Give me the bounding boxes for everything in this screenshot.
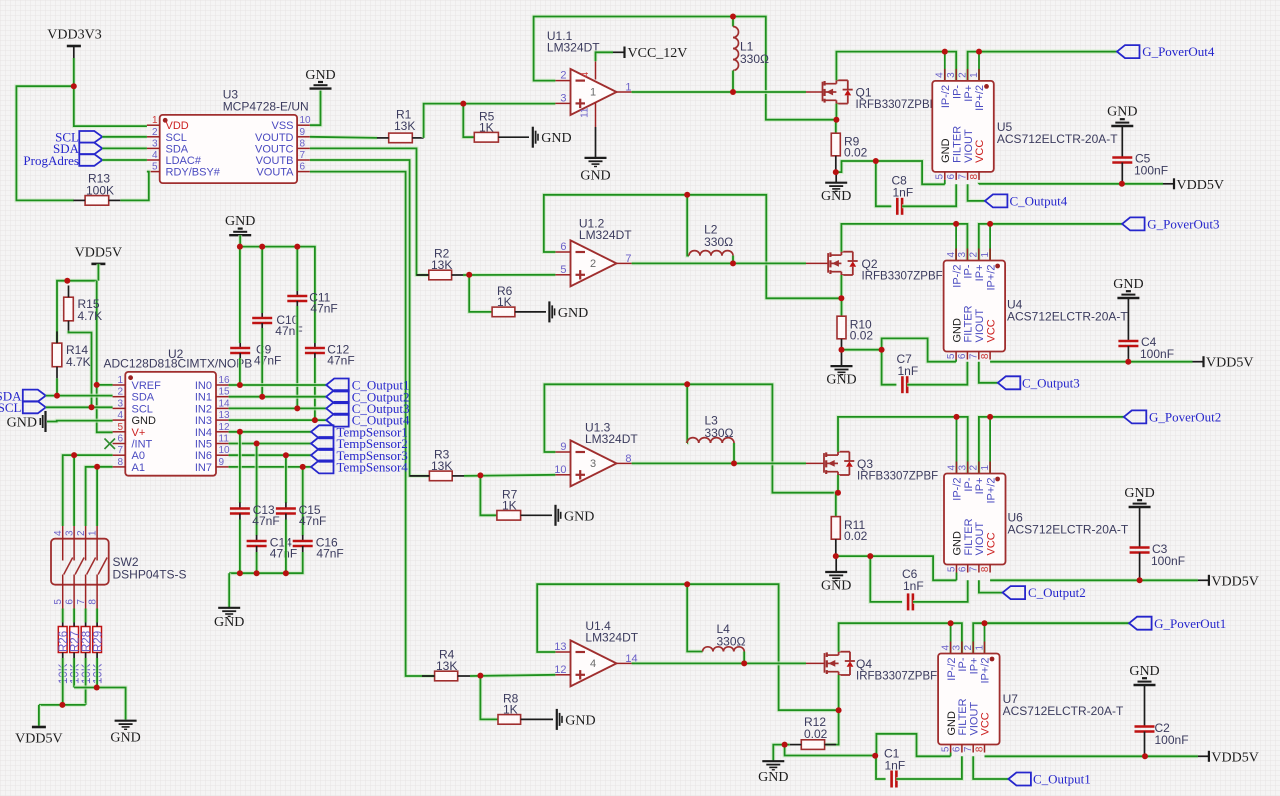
svg-text:VCC: VCC bbox=[980, 712, 992, 735]
svg-text:8: 8 bbox=[969, 173, 980, 179]
switch SW2 DSHP04TS-S body bbox=[51, 539, 187, 585]
wire ACS pin stubs top U6 bbox=[957, 417, 991, 474]
svg-text:5: 5 bbox=[117, 422, 123, 433]
svg-text:C_Output2: C_Output2 bbox=[1028, 585, 1086, 600]
SW2 pole 1 bbox=[53, 526, 72, 609]
ground above C3 bbox=[1124, 486, 1154, 507]
junction ACS pin1 bbox=[987, 414, 993, 420]
no-connect X at U2 /INT bbox=[105, 439, 116, 450]
svg-text:C_Output3: C_Output3 bbox=[1022, 375, 1080, 390]
junction A1/SW2 pin1 bbox=[94, 464, 100, 470]
capacitor C4 100nF bbox=[1118, 335, 1174, 362]
junction C1 branch bbox=[872, 753, 878, 759]
wire node to R8 bbox=[480, 676, 498, 720]
net flag SDA (U3) bbox=[53, 141, 102, 156]
resistor R26 10K bbox=[58, 609, 70, 685]
svg-text:2: 2 bbox=[957, 72, 968, 78]
IC U6 ACS712ELCTR-20A-T body bbox=[944, 465, 1129, 573]
wire C8 to FILTER pin bbox=[902, 184, 956, 206]
svg-text:C_Output1: C_Output1 bbox=[1033, 772, 1091, 787]
wire SCL flag to U2 pin3 bbox=[46, 405, 113, 409]
junction rail C11 bbox=[294, 244, 300, 250]
capacitor C15 47nF bbox=[276, 503, 326, 529]
wire U1.3 feedback bbox=[544, 384, 837, 492]
svg-text:VREF: VREF bbox=[132, 380, 162, 392]
wire gate lead Q3 bbox=[734, 461, 824, 465]
svg-text:IP+: IP+ bbox=[968, 658, 980, 675]
U3 pin 2 SCL bbox=[147, 127, 187, 144]
wire R13 to U3 RDY/BSY# bbox=[120, 172, 148, 201]
svg-text:GND: GND bbox=[951, 318, 963, 343]
U3 pin 10 VSS bbox=[271, 115, 311, 132]
resistor R2 13K bbox=[417, 247, 464, 280]
svg-text:6: 6 bbox=[300, 162, 306, 173]
svg-text:VSS: VSS bbox=[271, 120, 293, 132]
resistor R5 1K bbox=[474, 110, 529, 143]
svg-text:R28: R28 bbox=[81, 631, 93, 652]
wire U1.2 feedback bbox=[544, 195, 841, 298]
svg-text:LDAC#: LDAC# bbox=[166, 155, 202, 167]
svg-text:IP-/2: IP-/2 bbox=[951, 265, 963, 288]
svg-text:IN4: IN4 bbox=[195, 427, 212, 439]
svg-text:7: 7 bbox=[969, 353, 980, 359]
svg-text:1nF: 1nF bbox=[898, 364, 919, 378]
wire lower GND rail bbox=[229, 552, 303, 573]
svg-text:IP+: IP+ bbox=[963, 85, 975, 102]
U2 pin 10 IN6 bbox=[195, 445, 230, 462]
junction L2 output bbox=[730, 260, 736, 266]
junction Q3 source node bbox=[835, 490, 841, 496]
junction L4 top bbox=[684, 581, 690, 587]
junction IN0/C9 bbox=[237, 382, 243, 388]
ground below C13-C16 bbox=[214, 608, 244, 630]
wire R10 to ground bbox=[841, 350, 843, 366]
junction R11 bottom bbox=[833, 553, 839, 559]
svg-text:7: 7 bbox=[969, 566, 980, 572]
svg-text:RDY/BSY#: RDY/BSY# bbox=[166, 167, 221, 179]
svg-text:4.7K: 4.7K bbox=[66, 355, 91, 369]
svg-text:IRFB3307ZPBF: IRFB3307ZPBF bbox=[856, 99, 937, 111]
svg-text:Q4: Q4 bbox=[856, 657, 872, 671]
svg-text:GND: GND bbox=[946, 711, 958, 736]
wire SDA flag to U2 pin2 bbox=[46, 394, 113, 398]
svg-text:IN7: IN7 bbox=[195, 462, 212, 474]
net flag SDA (U2) bbox=[0, 388, 46, 403]
resistor R3 13K bbox=[410, 448, 464, 481]
resistor R28 10K bbox=[81, 609, 93, 685]
wire sense R11 to U6 GND pin bbox=[836, 556, 957, 580]
svg-text:13K: 13K bbox=[431, 258, 452, 272]
wire C10 to IN1 bbox=[260, 328, 264, 397]
svg-text:47nF: 47nF bbox=[254, 354, 281, 368]
svg-text:LM324DT: LM324DT bbox=[585, 631, 638, 645]
op-amp U1.4 LM324DT bbox=[554, 619, 639, 686]
wire C13 drop bbox=[238, 432, 242, 503]
svg-text:12: 12 bbox=[554, 664, 566, 676]
svg-text:VDD5V: VDD5V bbox=[1206, 356, 1253, 371]
svg-text:0.02: 0.02 bbox=[804, 727, 828, 741]
resistor R1 13K bbox=[377, 108, 424, 143]
svg-text:47nF: 47nF bbox=[310, 302, 337, 316]
svg-text:GND: GND bbox=[1107, 105, 1137, 120]
transistor Q3 IRFB3307ZPBF bbox=[824, 452, 938, 483]
U2 pin 4 GND bbox=[113, 410, 156, 427]
power flag VDD5V bar row3 bbox=[1209, 574, 1259, 589]
wire to G_PoverOut1 bbox=[985, 621, 1130, 625]
wire rail drop C10 bbox=[260, 247, 264, 313]
svg-text:SCL: SCL bbox=[166, 132, 187, 144]
wire VCC to VDD5V row4 bbox=[985, 754, 1198, 758]
svg-text:1: 1 bbox=[980, 465, 991, 471]
capacitor C1 1nF bbox=[876, 747, 905, 788]
U3 pin 9 VOUTD bbox=[255, 127, 310, 144]
svg-text:1: 1 bbox=[590, 87, 596, 99]
ground at U3 VSS bbox=[305, 68, 335, 89]
wire VDD5V stem bbox=[96, 264, 100, 281]
wire sense R10 to U4 GND pin bbox=[842, 338, 957, 361]
svg-text:IP+/2: IP+/2 bbox=[974, 85, 986, 111]
svg-text:ACS712ELCTR-20A-T: ACS712ELCTR-20A-T bbox=[1003, 704, 1124, 718]
svg-text:TempSensor4: TempSensor4 bbox=[337, 460, 409, 475]
svg-text:IN3: IN3 bbox=[195, 415, 212, 427]
svg-text:8: 8 bbox=[300, 138, 306, 149]
resistor R7 1K bbox=[497, 488, 552, 521]
wire C9 to IN0 bbox=[238, 358, 242, 385]
svg-text:VDD5V: VDD5V bbox=[1211, 574, 1258, 589]
junction rail C15 bbox=[283, 570, 289, 576]
junction A0/SW2 pin3 bbox=[71, 452, 77, 458]
wire VOUTA to R4 bbox=[310, 172, 435, 676]
wire U1.1 feedback bbox=[534, 17, 836, 120]
wire C16 drop bbox=[301, 467, 305, 536]
svg-text:14: 14 bbox=[219, 398, 231, 409]
svg-text:SCL: SCL bbox=[132, 403, 153, 415]
svg-text:10: 10 bbox=[554, 464, 566, 476]
wire VIOUT to C_Output2 bbox=[979, 580, 1003, 592]
wire C11 to IN2 bbox=[295, 306, 299, 408]
wire ACS IP- pins bbox=[945, 52, 956, 81]
svg-text:330Ω: 330Ω bbox=[704, 235, 733, 249]
wire ground to C5 bbox=[1121, 126, 1123, 157]
junction L3 output bbox=[731, 460, 737, 466]
U2 pin 5 V+ bbox=[113, 422, 146, 439]
svg-text:2: 2 bbox=[969, 252, 980, 258]
junction R12/GND node bbox=[782, 742, 788, 748]
svg-text:LM324DT: LM324DT bbox=[579, 228, 632, 242]
svg-text:IP+/2: IP+/2 bbox=[980, 658, 992, 684]
svg-text:R27: R27 bbox=[69, 631, 81, 652]
svg-text:7: 7 bbox=[117, 445, 123, 456]
wire pin4 to VCC_12V bbox=[596, 52, 614, 61]
svg-text:GND: GND bbox=[565, 713, 595, 728]
wire R4 to U1.4 input bbox=[470, 675, 555, 676]
svg-text:GND: GND bbox=[821, 189, 851, 204]
svg-text:LM324DT: LM324DT bbox=[547, 41, 600, 55]
capacitor C8 1nF bbox=[876, 161, 913, 215]
junction VDD5V/C3 bbox=[1137, 577, 1143, 583]
resistor R15 4.7K bbox=[64, 286, 102, 333]
wire ACS pin stubs top U7 bbox=[951, 623, 985, 653]
svg-text:VDD5V: VDD5V bbox=[15, 732, 62, 747]
svg-text:IP-/2: IP-/2 bbox=[946, 658, 958, 681]
wire U1.1 output to gate bbox=[632, 90, 733, 94]
svg-text:GND: GND bbox=[580, 169, 610, 184]
svg-text:7: 7 bbox=[300, 150, 306, 161]
wire Q1 drain to G_PoverOut bbox=[836, 52, 944, 81]
svg-text:2: 2 bbox=[560, 70, 566, 82]
wire ground to C2 bbox=[1144, 685, 1146, 726]
wire R3 to U1.3 input bbox=[464, 475, 555, 476]
svg-text:9: 9 bbox=[300, 127, 306, 138]
junction SCL/R15 bbox=[89, 404, 95, 410]
svg-text:FILTER: FILTER bbox=[963, 305, 975, 342]
wire A0 branch SW2 pin3 bbox=[72, 455, 76, 526]
svg-text:SDA: SDA bbox=[166, 143, 189, 155]
wire VDD bus stem bbox=[37, 705, 41, 726]
wire IN2 to C_Output3 flag bbox=[229, 406, 327, 410]
junction VDD5V/C2 bbox=[1142, 753, 1148, 759]
svg-text:VOUTA: VOUTA bbox=[256, 167, 294, 179]
svg-text:13K: 13K bbox=[431, 459, 452, 473]
wire C1 to FILTER pin bbox=[896, 756, 962, 779]
wire VDD3V3 to R13 bbox=[16, 86, 73, 200]
wire VDD3V3 to U3 VDD bbox=[74, 58, 147, 126]
wire ACS pin stubs top U4 bbox=[956, 224, 990, 261]
wire IN5 to TempSensor2 flag bbox=[229, 442, 311, 446]
wire SDA flag to U3 pin3 bbox=[102, 146, 147, 150]
resistor R10 0.02 bbox=[837, 316, 873, 343]
wire Q2 source bbox=[839, 275, 843, 298]
wire R1 to U1.1 noninverting input bbox=[424, 104, 556, 138]
svg-text:13K: 13K bbox=[394, 119, 415, 133]
svg-text:4: 4 bbox=[946, 465, 957, 471]
svg-text:C_Output4: C_Output4 bbox=[1010, 194, 1068, 209]
wire source to R10 bbox=[839, 298, 843, 316]
svg-text:2: 2 bbox=[117, 387, 123, 398]
wire C7 to FILTER pin bbox=[907, 362, 967, 385]
svg-text:GND: GND bbox=[7, 416, 37, 431]
wire R11 to ground bbox=[835, 556, 837, 572]
svg-text:3: 3 bbox=[65, 530, 76, 536]
junction IN4/C13 bbox=[237, 429, 243, 435]
IC U2 ADC128D818CIMTX/NOPB body bbox=[104, 347, 253, 476]
svg-text:VDD5V: VDD5V bbox=[1211, 750, 1258, 765]
junction Q4 source node bbox=[836, 707, 842, 713]
svg-text:1: 1 bbox=[625, 82, 631, 94]
net flag G_PoverOut1 bbox=[1129, 616, 1226, 631]
wire pin11 to GND bbox=[595, 127, 597, 158]
junction R4/R8 bbox=[477, 673, 483, 679]
svg-text:1nF: 1nF bbox=[903, 579, 924, 593]
junction L2 top bbox=[684, 192, 690, 198]
svg-text:100nF: 100nF bbox=[1134, 164, 1168, 178]
svg-text:GND: GND bbox=[1113, 277, 1143, 292]
capacitor C5 100nF bbox=[1112, 152, 1168, 184]
svg-text:GND: GND bbox=[940, 138, 952, 163]
power flag VDD5V (SW2) bbox=[15, 727, 62, 747]
U2 pin 9 IN7 bbox=[195, 457, 229, 474]
junction IN6/C15 bbox=[283, 452, 289, 458]
svg-text:1K: 1K bbox=[502, 499, 517, 513]
wire VDD vertical to U2 V+ bbox=[97, 281, 113, 433]
inductor L1 330 bbox=[733, 17, 769, 93]
capacitor C13 47nF bbox=[230, 503, 280, 529]
wire SCL flag to U3 pin2 bbox=[102, 135, 147, 139]
wire C15 drop bbox=[284, 455, 288, 503]
svg-text:GND: GND bbox=[558, 306, 588, 321]
svg-text:FILTER: FILTER bbox=[951, 126, 963, 163]
U3 pin 5 RDY/BSY# bbox=[147, 162, 221, 179]
resistor R8 1K bbox=[498, 692, 553, 725]
inductor L4 330 bbox=[687, 584, 745, 663]
svg-text:8: 8 bbox=[117, 457, 123, 468]
ground below U1.1 bbox=[580, 158, 610, 184]
resistor R12 0.02 bbox=[790, 715, 836, 749]
junction rail C13 bbox=[237, 570, 243, 576]
svg-text:R29: R29 bbox=[92, 631, 104, 652]
net flag SCL (U2) bbox=[0, 400, 46, 415]
wire gate lead Q1 bbox=[733, 90, 823, 94]
wire IN6 to TempSensor3 flag bbox=[229, 453, 311, 457]
svg-text:47nF: 47nF bbox=[252, 514, 279, 528]
IC U5 ACS712ELCTR-20A-T body bbox=[932, 72, 1118, 180]
wire ACS IP- pins bbox=[957, 417, 968, 474]
wire ProgAdres flag to U3 pin4 bbox=[102, 158, 147, 162]
svg-text:IP+: IP+ bbox=[974, 265, 986, 282]
wire VREF tap bbox=[97, 383, 113, 387]
svg-text:6: 6 bbox=[65, 599, 76, 605]
wire VDD bus bottom bbox=[39, 703, 86, 707]
svg-text:GND: GND bbox=[758, 770, 788, 785]
resistor R27 10K bbox=[69, 609, 81, 685]
wire VCC to VDD5V row1 bbox=[979, 182, 1163, 187]
junction L4 output bbox=[741, 660, 747, 666]
inductor L3 330 bbox=[687, 384, 734, 463]
svg-text:IP-/2: IP-/2 bbox=[940, 85, 952, 108]
wire U1.4 output to gate bbox=[632, 661, 745, 665]
wire ACS pin stubs top U5 bbox=[945, 52, 979, 81]
U2 pin 1 VREF bbox=[113, 375, 162, 392]
resistor R6 1K bbox=[492, 284, 546, 317]
svg-text:100nF: 100nF bbox=[1155, 733, 1189, 747]
U2 pin 7 A0 bbox=[113, 445, 145, 462]
U3 pin 7 VOUTB bbox=[256, 150, 310, 167]
svg-text:R26: R26 bbox=[58, 631, 70, 652]
svg-text:IP+/2: IP+/2 bbox=[985, 265, 997, 291]
power flag VDD5V bar row1 bbox=[1174, 178, 1224, 193]
junction L1 top bbox=[730, 14, 736, 20]
wire ground to C3 bbox=[1139, 507, 1141, 547]
wire U1.2 output to gate bbox=[632, 261, 733, 265]
svg-text:ACS712ELCTR-20A-T: ACS712ELCTR-20A-T bbox=[997, 132, 1118, 146]
net flag ProgAdres (U3) bbox=[23, 153, 102, 168]
svg-text:0.02: 0.02 bbox=[850, 329, 874, 343]
power flag VDD5V bar row4 bbox=[1209, 750, 1259, 765]
svg-text:V+: V+ bbox=[132, 427, 146, 439]
U2 pin 14 IN2 bbox=[195, 398, 230, 415]
svg-text:3: 3 bbox=[952, 645, 963, 651]
wire sense R9 to U5 GND pin bbox=[836, 161, 945, 184]
IC U3 MCP4728-E/UN body bbox=[160, 88, 309, 184]
capacitor C2 100nF bbox=[1135, 721, 1189, 756]
wire U1.3 output to gate bbox=[632, 461, 734, 465]
resistor R4 13K bbox=[422, 648, 470, 681]
svg-text:VDD3V3: VDD3V3 bbox=[47, 28, 101, 43]
svg-text:1: 1 bbox=[974, 645, 985, 651]
power flag VDD5V bar row2 bbox=[1204, 356, 1254, 371]
svg-text:VCC: VCC bbox=[974, 140, 986, 163]
svg-text:8: 8 bbox=[980, 566, 991, 572]
svg-text:FILTER: FILTER bbox=[963, 518, 975, 555]
svg-text:3: 3 bbox=[957, 252, 968, 258]
svg-text:IN6: IN6 bbox=[195, 450, 212, 462]
svg-text:330Ω: 330Ω bbox=[705, 426, 734, 440]
svg-text:IP+: IP+ bbox=[974, 478, 986, 495]
svg-text:IN5: IN5 bbox=[195, 439, 212, 451]
SW2 pole 2 bbox=[65, 526, 85, 609]
svg-text:8: 8 bbox=[625, 453, 631, 465]
svg-text:VCC: VCC bbox=[985, 319, 997, 342]
svg-text:16: 16 bbox=[219, 375, 231, 386]
svg-text:8: 8 bbox=[88, 599, 99, 605]
junction rail C10 bbox=[259, 244, 265, 250]
svg-text:13K: 13K bbox=[436, 659, 457, 673]
ground at R6 bbox=[549, 301, 588, 322]
wire R28 down bbox=[84, 658, 88, 705]
svg-text:7: 7 bbox=[957, 173, 968, 179]
U3 pin 3 SDA bbox=[147, 138, 189, 155]
wire R29 down bbox=[95, 658, 99, 688]
svg-text:A0: A0 bbox=[132, 450, 145, 462]
wire Q4 source bbox=[837, 675, 841, 710]
wire A1 branch SW2 pin1 bbox=[95, 467, 99, 526]
wire IN0 to C_Output1 flag bbox=[229, 383, 327, 387]
wire C6 to FILTER pin bbox=[913, 580, 968, 602]
svg-text:5: 5 bbox=[946, 566, 957, 572]
junction IN1/C10 bbox=[259, 394, 265, 400]
junction sense/C6 branch bbox=[867, 553, 873, 559]
transistor Q2 IRFB3307ZPBF bbox=[828, 252, 943, 283]
wire source to R9 bbox=[834, 120, 839, 134]
U3 pin 4 LDAC# bbox=[147, 150, 202, 167]
net flag G_PoverOut2 bbox=[1124, 410, 1221, 425]
svg-text:3: 3 bbox=[946, 72, 957, 78]
svg-text:2: 2 bbox=[969, 465, 980, 471]
wire to G_PoverOut3 bbox=[990, 222, 1122, 226]
svg-text:4: 4 bbox=[580, 72, 591, 78]
svg-text:IP-/2: IP-/2 bbox=[952, 478, 964, 501]
U2 pin 8 A1 bbox=[113, 457, 145, 474]
svg-text:5: 5 bbox=[152, 162, 158, 173]
junction IN2/C11 bbox=[294, 405, 300, 411]
svg-text:1K: 1K bbox=[497, 295, 512, 309]
wire R2 to U1.2 input bbox=[463, 273, 555, 277]
svg-text:GND: GND bbox=[225, 214, 255, 229]
wire IN1 to C_Output2 flag bbox=[229, 395, 327, 399]
wire GND bus bottom bbox=[74, 688, 126, 720]
svg-text:2: 2 bbox=[152, 127, 158, 138]
svg-text:VCC: VCC bbox=[985, 532, 997, 555]
svg-text:GND: GND bbox=[1124, 486, 1154, 501]
junction R1/R5 node bbox=[460, 101, 466, 107]
junction R9 bottom bbox=[833, 169, 839, 175]
wire U6 pin5 stub bbox=[956, 573, 958, 581]
wire U2 GND pin bbox=[47, 419, 113, 424]
junction R2/R6 bbox=[466, 272, 472, 278]
net flag C_Output4 bbox=[985, 194, 1068, 209]
wire R12 to ground bbox=[773, 745, 790, 762]
junction VDD3V3 node bbox=[71, 83, 77, 89]
